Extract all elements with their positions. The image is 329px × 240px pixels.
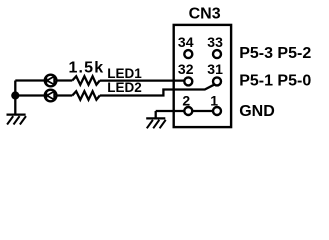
svg-text:LED2: LED2 — [107, 80, 142, 95]
wire row A (LED1 net) — [15, 79, 188, 81]
LED D2 — [45, 90, 57, 102]
ground GND1 (left) — [7, 115, 27, 125]
node junction dot — [11, 91, 19, 99]
svg-text:P5-1 P5-0: P5-1 P5-0 — [239, 73, 311, 90]
svg-text:34: 34 — [178, 34, 194, 50]
pin 33 — [207, 34, 223, 58]
pin 31 — [207, 61, 223, 86]
pin 1 — [210, 93, 221, 116]
svg-text:P5-3 P5-2: P5-3 P5-2 — [239, 45, 311, 62]
LED D1 — [45, 75, 57, 87]
label LED1 — [107, 66, 142, 81]
label CN3 — [189, 5, 221, 22]
resistor R2 1.5k — [72, 91, 100, 99]
svg-text:32: 32 — [178, 61, 194, 77]
svg-text:1.5k: 1.5k — [69, 59, 105, 76]
wire row B (LED2 net) — [15, 83, 217, 95]
net label P5-3 P5-2 — [239, 45, 311, 62]
label 1.5k — [69, 59, 105, 76]
net label P5-1 P5-0 — [239, 73, 311, 90]
svg-text:LED1: LED1 — [107, 66, 142, 81]
resistor R1 1.5k — [72, 76, 100, 84]
pin 34 — [178, 34, 194, 58]
ground GND2 (connector) — [146, 118, 166, 128]
svg-text:CN3: CN3 — [189, 5, 221, 22]
svg-text:GND: GND — [239, 103, 275, 120]
svg-text:33: 33 — [207, 34, 223, 50]
label LED2 — [107, 80, 142, 95]
pin 2 — [182, 93, 192, 116]
net label GND — [239, 103, 275, 120]
wire left vertical rail — [14, 81, 16, 115]
svg-text:31: 31 — [207, 61, 223, 77]
pin 32 — [178, 61, 194, 86]
wire pin2 to ground — [156, 111, 217, 118]
connector CN3 body — [174, 25, 231, 127]
